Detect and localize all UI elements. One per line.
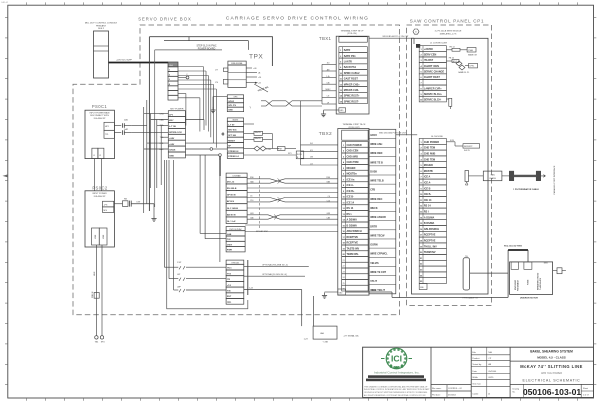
svg-text:L1: L1 [93, 155, 95, 157]
terminator cable dumbbell [509, 171, 514, 181]
svg-text:/CE 14: /CE 14 [424, 199, 432, 202]
svg-text:ALL RIGHTS RESERVED. COPYRIGHT: ALL RIGHTS RESERVED. COPYRIGHT INDUSTRIA… [364, 394, 427, 397]
svg-text:WIRE TE CNT: WIRE TE CNT [370, 271, 386, 274]
svg-text:OPTIONAL [RS-485B 30 L4]: OPTIONAL [RS-485B 30 L4] [262, 263, 288, 266]
svg-text:MCHED: MCHED [347, 167, 356, 170]
svg-text:BATR PS1: BATR PS1 [344, 55, 357, 58]
drop component [465, 171, 469, 182]
svg-text:MILL DUTY CONTROL CONSOLE: MILL DUTY CONTROL CONSOLE [85, 23, 118, 25]
svg-text:1 of 17: 1 of 17 [583, 395, 589, 397]
svg-text:WIRE TELB: WIRE TELB [370, 180, 384, 183]
wire across drive top [164, 40, 248, 42]
svg-text:RS 14: RS 14 [347, 207, 354, 210]
svg-text:STEP SLO IN PWC: STEP SLO IN PWC [196, 46, 216, 48]
twisted pair wire C [247, 214, 268, 216]
svg-text:4/3: 4/3 [310, 150, 313, 152]
svg-text:DS/WAB: DS/WAB [233, 174, 241, 177]
svg-text:3rd: 3rd [327, 63, 330, 65]
svg-text:/TA RST: /TA RST [424, 59, 434, 62]
svg-text:J-TT SIGNAL CBL: J-TT SIGNAL CBL [343, 335, 358, 338]
svg-text:BACR PS1: BACR PS1 [344, 66, 357, 69]
DSWA strip header [226, 173, 247, 177]
speed pot terminals circles [95, 336, 98, 339]
svg-text:+24V: +24V [169, 143, 175, 146]
svg-text:WIRE RED: WIRE RED [370, 152, 382, 155]
twisted pair wire A [247, 178, 270, 180]
bus verticals lower left [163, 160, 165, 267]
valve bus vertical down [300, 101, 302, 165]
svg-text:RST: RST [227, 296, 232, 298]
svg-text:LAG: LAG [169, 64, 173, 67]
svg-text:CA6: CA6 [326, 217, 330, 220]
svg-text:C3b: C3b [326, 83, 329, 85]
svg-text:MPACR CHS+: MPACR CHS+ [344, 83, 361, 86]
svg-text:SLRS: SLRS [297, 154, 302, 156]
GPIO header [227, 95, 243, 99]
svg-text:Industrial Control Integrators: Industrial Control Integrators, Inc. [374, 371, 420, 375]
svg-text:RS I-: RS I- [347, 213, 353, 216]
SERV module box [412, 38, 489, 294]
ground for PS0C2 wire [153, 204, 155, 216]
svg-text:LINE: LINE [103, 234, 105, 239]
wire fan from LAG strip to lower area [178, 66, 203, 68]
svg-text:~C BB: ~C BB [322, 341, 328, 343]
svg-text:LAMRCR CVR+: LAMRCR CVR+ [424, 87, 442, 90]
svg-text:SERV/SPP: SERV/SPP [464, 146, 473, 148]
svg-text:(SNELATELL-177): (SNELATELL-177) [440, 32, 457, 35]
svg-text:CHD POWER: CHD POWER [347, 144, 362, 147]
svg-text:RS I: RS I [424, 211, 429, 214]
svg-text:22: 22 [343, 266, 345, 268]
svg-text:L2: L2 [99, 155, 101, 157]
svg-text:1 PN TERMINATOR CABLE: 1 PN TERMINATOR CABLE [513, 188, 539, 191]
svg-text:AB IB /N: AB IB /N [227, 213, 236, 216]
TB terminal bar [463, 258, 470, 290]
svg-text:PB 54: PB 54 [449, 57, 454, 59]
svg-text:CONTROL - 02: CONTROL - 02 [448, 388, 463, 390]
svg-text:CHD TEM: CHD TEM [424, 158, 435, 161]
svg-text:/CE 14: /CE 14 [347, 201, 355, 204]
terminal strip PWR SUP [226, 231, 245, 236]
terminal strip LAG [168, 62, 178, 67]
svg-text:L-T ST: L-T ST [228, 124, 235, 126]
svg-text:FUSE: FUSE [528, 279, 530, 285]
wire 9pin from left [391, 292, 393, 297]
svg-text:TERM INV-: TERM INV- [347, 253, 360, 256]
PS0C1 fuse cells [104, 122, 114, 130]
svg-text:CHD POWER: CHD POWER [424, 141, 439, 144]
svg-text:CAD-02: CAD-02 [1, 1, 9, 4]
svg-text:SRV SIG: SRV SIG [228, 130, 237, 132]
terminal strip J4 [419, 139, 446, 145]
svg-text:MOSTB: MOSTB [424, 170, 433, 173]
TBX2 left input wires [301, 144, 338, 146]
svg-text:21: 21 [343, 260, 345, 262]
svg-text:PARALLEL PORT INTERFACE: PARALLEL PORT INTERFACE [553, 165, 556, 194]
arrow right of dumbbell [541, 175, 546, 178]
TBX2 ground symbol [325, 291, 338, 293]
PS0C1 output cells L1 L2 [92, 148, 98, 158]
svg-text:SERVIC BLCH-: SERVIC BLCH- [424, 99, 441, 102]
svg-text:M/B: M/B [544, 262, 548, 264]
svg-text:3.27% 200-B SERV MODULE: 3.27% 200-B SERV MODULE [435, 31, 462, 33]
svg-text:208-480V-3P: 208-480V-3P [94, 196, 106, 198]
title block outer box [363, 347, 594, 397]
wires PS0C1 to PS0C2 [94, 159, 96, 191]
svg-text:RCEPTVE: RCEPTVE [424, 240, 436, 243]
svg-text:/CE B: /CE B [424, 187, 431, 190]
svg-text:DS L12: DS L12 [227, 181, 235, 183]
svg-text:GORN: GORN [370, 244, 378, 247]
svg-text:+PS: +PS [104, 204, 109, 206]
wire TB to motor [470, 272, 509, 274]
svg-text:GAST RGST: GAST RGST [344, 78, 359, 81]
wire PS0C2 right with RB filter [114, 203, 122, 205]
svg-text:CHART /CEN: CHART /CEN [424, 65, 439, 68]
svg-text:File:: File: [472, 352, 476, 354]
wire into LAB box [313, 296, 315, 326]
J1 bottom stub component [446, 98, 448, 100]
svg-text:C16: C16 [327, 200, 330, 202]
svg-text:Tested by:: Tested by: [472, 363, 482, 366]
svg-text:23: 23 [343, 271, 345, 273]
svg-text:Product:: Product: [472, 357, 480, 360]
dashed enclosure SERVO DRIVE BOX [73, 25, 400, 315]
svg-text:LAATR: LAATR [344, 61, 352, 64]
svg-text:GP IB /N: GP IB /N [227, 195, 236, 197]
svg-text:GL 1 L4/: GL 1 L4/ [227, 220, 236, 223]
wires PS0C1 to KEY POWER strip [132, 125, 169, 127]
svg-text:/CE B-: /CE B- [347, 196, 355, 199]
svg-text:SAME SL PL: SAME SL PL [458, 71, 469, 74]
svg-text:GND: GND [169, 156, 174, 158]
svg-text:B DS/WA: B DS/WA [424, 222, 435, 225]
svg-text:SAW CONTROL PANEL CP1: SAW CONTROL PANEL CP1 [410, 19, 484, 24]
svg-text:INPUT POWER MAIN: INPUT POWER MAIN [90, 112, 110, 115]
svg-text:GA6: GA6 [250, 180, 254, 183]
terminal strip MDRV [227, 121, 243, 126]
svg-text:MS1 DB1 DB4 PO-R ON CNT: MS1 DB1 DB4 PO-R ON CNT [379, 133, 407, 135]
DPRL box [469, 63, 478, 68]
svg-text:RS6: RS6 [326, 177, 330, 179]
svg-text:ACL2: ACL2 [453, 60, 457, 63]
J4 gnd stub [419, 284, 427, 290]
svg-text:PENDANT: PENDANT [96, 24, 107, 27]
svg-text:MOSTBn: MOSTBn [347, 173, 358, 176]
PBT box [278, 147, 286, 151]
svg-text:PWR: PWR [227, 250, 232, 252]
SERV SPP box [463, 144, 480, 148]
motor fuse cell [524, 262, 532, 269]
PWR SUP strip header [226, 227, 245, 231]
svg-text:+24VDC: +24VDC [424, 48, 434, 51]
svg-text:RCEPTVE: RCEPTVE [347, 242, 359, 245]
svg-text:/CE B-: /CE B- [424, 193, 432, 196]
svg-text:THIS DRAWING CONTAINS CONFIDEN: THIS DRAWING CONTAINS CONFIDENTIAL AND P… [364, 385, 428, 388]
svg-text:25: 25 [343, 283, 345, 285]
power supply PS0C1 box [85, 110, 114, 158]
svg-text:SERV CEN: SERV CEN [424, 54, 437, 57]
svg-text:L/4: L/4 [310, 163, 313, 165]
terminal strip KEY POWER [168, 111, 185, 117]
svg-text:200-480V-3P: 200-480V-3P [94, 118, 106, 120]
TBX2 wire color column [369, 129, 396, 293]
TERM box 17MA [467, 48, 476, 53]
svg-text:LT4: LT4 [215, 82, 218, 84]
svg-text:CHART RGST: CHART RGST [424, 76, 440, 79]
svg-text:CHD /W/B: CHD /W/B [424, 153, 436, 156]
svg-text:3/4: 3/4 [310, 143, 313, 145]
svg-text:WIRE TECW: WIRE TECW [370, 234, 385, 237]
svg-text:B DS/WA: B DS/WA [347, 224, 358, 227]
svg-text:INTERLOCK: INTERLOCK [169, 132, 182, 134]
svg-text:WIRE ASSOR: WIRE ASSOR [370, 216, 386, 219]
svg-text:C6: C6 [250, 196, 252, 198]
svg-text:SAME LVR: SAME LVR [468, 53, 478, 56]
svg-text:KEY: KEY [169, 120, 174, 122]
svg-text:J1 CONTROLLER: J1 CONTROLLER [430, 42, 447, 44]
drive unit TPX outer box [149, 37, 272, 295]
logo ICI [386, 348, 407, 369]
svg-text:ITC1: ITC1 [227, 268, 232, 270]
svg-text:AP B N: AP B N [227, 200, 235, 203]
hexagon zone D [413, 29, 419, 34]
svg-text:RS6: RS6 [250, 177, 254, 179]
svg-text:ICI: ICI [391, 354, 402, 364]
PS0C2 cells [103, 201, 114, 207]
svg-text:TBX2: TBX2 [319, 131, 332, 137]
svg-text:L-T SU: L-T SU [169, 126, 176, 128]
svg-text:Width:: Width: [472, 376, 478, 379]
svg-text:/CE A-: /CE A- [347, 184, 354, 187]
svg-text:TERMINAL STRIP TB OF: TERMINAL STRIP TB OF [341, 29, 365, 32]
dashed enclosure SAW CONTROL PANEL CP1 [407, 25, 492, 305]
svg-text:ELECTRICAL SCHEMATIC: ELECTRICAL SCHEMATIC [523, 379, 581, 383]
svg-text:TERM INV: TERM INV [424, 251, 436, 254]
svg-text:RS 14: RS 14 [424, 205, 431, 208]
svg-text:CHD /CEN: CHD /CEN [347, 150, 359, 153]
MSA left stub terminals [223, 68, 228, 71]
svg-text:C16: C16 [250, 200, 253, 202]
svg-text:MPACB CHS-: MPACB CHS- [344, 89, 360, 92]
svg-text:WIRE TE B: WIRE TE B [370, 161, 383, 164]
power supply PS0C2 box [85, 191, 114, 247]
svg-text:SFT SIG: SFT SIG [228, 135, 236, 137]
svg-text:RCEPTVE: RCEPTVE [347, 236, 359, 239]
terminal strip TBX1 [336, 36, 369, 114]
svg-text:WIRE CFPWCL: WIRE CFPWCL [370, 253, 388, 256]
key power row stub wires [144, 113, 169, 115]
svg-text:STRIKE LO: STRIKE LO [228, 156, 239, 158]
svg-text:SPMC CABL2: SPMC CABL2 [344, 72, 360, 75]
svg-text:STRIKE HI: STRIKE HI [228, 151, 239, 153]
TBX2 gnd stub [338, 289, 346, 295]
speed pot wires down [95, 245, 97, 336]
TBX1 gnd stub [339, 108, 346, 112]
terminal strip ITPB [226, 264, 244, 270]
fuse on speed pot wire [94, 293, 99, 299]
svg-text:/CE A-: /CE A- [424, 182, 431, 185]
svg-text:17MA: 17MA [468, 49, 473, 52]
motor encoder cell [511, 262, 518, 269]
svg-text:RS GELB: RS GELB [227, 188, 237, 190]
svg-text:BATR: BATR [344, 49, 351, 52]
svg-text:WECK: WECK [370, 207, 378, 210]
svg-text:/CE B+: /CE B+ [347, 190, 356, 193]
svg-text:TERMINAL STRIP TB-OF: TERMINAL STRIP TB-OF [343, 123, 367, 126]
contact symbol near MDRV [221, 133, 225, 135]
svg-text:G99: G99 [327, 213, 331, 215]
svg-text:05/20/04: 05/20/04 [488, 371, 497, 373]
svg-text:24: 24 [343, 277, 345, 279]
svg-text:CHD /TDM: CHD /TDM [347, 161, 359, 164]
svg-text:ABLFDSRCH: ABLFDSRCH [347, 230, 362, 233]
zone arrow marker left edge [3, 174, 8, 177]
svg-text:DUSK: DUSK [370, 170, 377, 173]
svg-text:VELVIS: VELVIS [370, 262, 379, 265]
drive motor box [510, 262, 553, 295]
svg-text:Sheet: Sheet [583, 387, 588, 390]
twisted pair wire B [247, 197, 270, 199]
svg-text:Test man:: Test man: [472, 383, 481, 386]
svg-text:TBX1: TBX1 [319, 36, 331, 41]
svg-text:MCHED: MCHED [424, 164, 433, 167]
svg-text:(POS-ON): (POS-ON) [347, 33, 357, 35]
terminal strip J1 [419, 46, 446, 52]
logo address bars [368, 375, 424, 378]
svg-text:1/WT: 1/WT [227, 244, 233, 246]
svg-text:McKAY 74'' SLITTING LINE: McKAY 74'' SLITTING LINE [520, 364, 583, 369]
shield dashed line [259, 176, 261, 230]
svg-text:PS0C1: PS0C1 [92, 104, 108, 109]
svg-text:CFB: CFB [370, 189, 375, 192]
ITPB strip header [226, 260, 244, 264]
svg-text:DRTR: DRTR [370, 225, 377, 228]
SLRS B box [296, 151, 304, 159]
stub circle right of LAG strip [178, 77, 186, 79]
svg-text:OR WHOLE WITHOUT WRITTEN PERMI: OR WHOLE WITHOUT WRITTEN PERMISSION IS S… [364, 392, 428, 394]
svg-text:SHV PL: SHV PL [464, 150, 470, 152]
svg-text:DPRL: DPRL [470, 66, 475, 68]
svg-text:SERVIC CHANGE: SERVIC CHANGE [424, 70, 445, 73]
svg-text:C6: C6 [328, 196, 330, 198]
svg-text:/CE An: /CE An [347, 178, 355, 181]
svg-text:LINE: LINE [0, 0, 5, 1]
svg-text:CARRIAGE SERVO DRIVE CONTROL W: CARRIAGE SERVO DRIVE CONTROL WIRING [226, 16, 369, 22]
svg-text:+24V: +24V [169, 137, 175, 140]
MDRV diamond contacts [254, 146, 260, 151]
svg-text:Date:: Date: [472, 370, 477, 373]
MDRV header [227, 118, 243, 121]
svg-text:File name:: File name: [432, 388, 442, 390]
svg-text:HCU-13U-/3U TW/S: HCU-13U-/3U TW/S [504, 245, 523, 247]
svg-text:SPMC RGST+: SPMC RGST+ [344, 95, 360, 98]
svg-text:TPX: TPX [249, 54, 263, 61]
TBX1 ground symbol [324, 109, 339, 111]
motor right stub [553, 270, 557, 272]
svg-text:CHARG: CHARG [489, 177, 496, 180]
MSA right wires [246, 67, 252, 69]
wire bus left verticals [143, 107, 145, 213]
svg-text:DDE 2: DDE 2 [98, 28, 105, 30]
key power right wires with junction circles [185, 119, 204, 121]
PS0C2 bottom cells LINE [92, 228, 100, 245]
file name cell [431, 384, 471, 386]
svg-text:SP1: SP1 [288, 153, 292, 155]
svg-text:050106-103-01: 050106-103-01 [523, 387, 582, 397]
TBX1 left stub wires [322, 63, 336, 65]
svg-text:1 NP: 1 NP [177, 262, 182, 264]
svg-text:CHD /W/B: CHD /W/B [347, 155, 359, 158]
svg-text:/CE A: /CE A [424, 176, 431, 179]
svg-text:OPTIONAL [30 1454 30 L4]: OPTIONAL [30 1454 30 L4] [262, 273, 287, 276]
MSA SIGNAL box [228, 65, 246, 87]
svg-text:-24: -24 [258, 83, 261, 85]
svg-text:KEY POWER: KEY POWER [170, 109, 184, 111]
svg-text:SERVO DRIVE BOX: SERVO DRIVE BOX [138, 17, 192, 22]
wire fan inner pair [178, 93, 186, 95]
svg-text:LT7: LT7 [215, 70, 218, 72]
CAN cable box [483, 171, 502, 181]
svg-text:LINE: LINE [94, 271, 96, 276]
LAB connector box [313, 326, 337, 339]
svg-text:ABLFDSRCH: ABLFDSRCH [424, 228, 439, 231]
svg-text:J4 CHOOSE: J4 CHOOSE [431, 136, 443, 138]
svg-text:LAB: LAB [320, 332, 324, 335]
MSA SIGNAL header [228, 61, 246, 65]
svg-text:WIRE ASH: WIRE ASH [370, 143, 382, 146]
svg-text:GND: GND [228, 110, 233, 112]
svg-text:CA6: CA6 [250, 216, 254, 219]
svg-text:CHD TEM: CHD TEM [424, 147, 435, 150]
svg-text:CAN: CAN [491, 173, 496, 176]
svg-text:BREAKING HOOD: BREAKING HOOD [537, 272, 540, 290]
svg-text:VTLIT: VTLIT [370, 280, 377, 283]
MDRV relay wires [244, 123, 254, 125]
GPIO left wire to ground [213, 96, 227, 98]
title block vertical dividers [430, 347, 432, 397]
svg-text:INDUSTRIAL CONTROL INTEGRATORS: INDUSTRIAL CONTROL INTEGRATORS INC. ANY … [364, 388, 430, 391]
drive strips box [167, 160, 248, 309]
svg-text:CHAS: CHAS [169, 149, 176, 152]
svg-text:LINE: LINE [95, 234, 97, 239]
svg-text:RESET: RESET [228, 140, 236, 142]
drive board inner box [155, 50, 222, 207]
svg-text:9 PIN CABLE TB: 9 PIN CABLE TB [462, 296, 478, 299]
svg-text:LAB: LAB [227, 233, 232, 236]
svg-text:FEEDBACK: FEEDBACK [516, 279, 519, 291]
valve wires to TBX1 bus [301, 100, 323, 102]
TBX1 left bus vertical [321, 64, 323, 104]
svg-text:RCEPTVE: RCEPTVE [424, 234, 436, 237]
svg-text:A DS/WA: A DS/WA [347, 219, 358, 222]
svg-text:Drawing: Drawing [513, 389, 520, 391]
svg-text:WIRE REC: WIRE REC [370, 198, 382, 201]
svg-text:THOLL INV: THOLL INV [424, 245, 437, 248]
svg-text:Contin:: Contin: [472, 393, 479, 396]
svg-text:MN4C: MN4C [325, 89, 331, 91]
svg-text:GI-C GELB: GI-C GELB [227, 208, 239, 210]
terminal strip TBX2 [338, 129, 369, 296]
svg-text:1.4k: 1.4k [326, 76, 329, 78]
pendant console box [94, 31, 109, 78]
info rows File Product [471, 354, 510, 356]
svg-text:05/20/04: 05/20/04 [448, 395, 457, 397]
valve signal leader [254, 84, 268, 92]
svg-text:A DS/WA: A DS/WA [424, 216, 435, 219]
svg-text:GRAY: GRAY [370, 134, 377, 137]
svg-text:GA6: GA6 [326, 181, 330, 184]
